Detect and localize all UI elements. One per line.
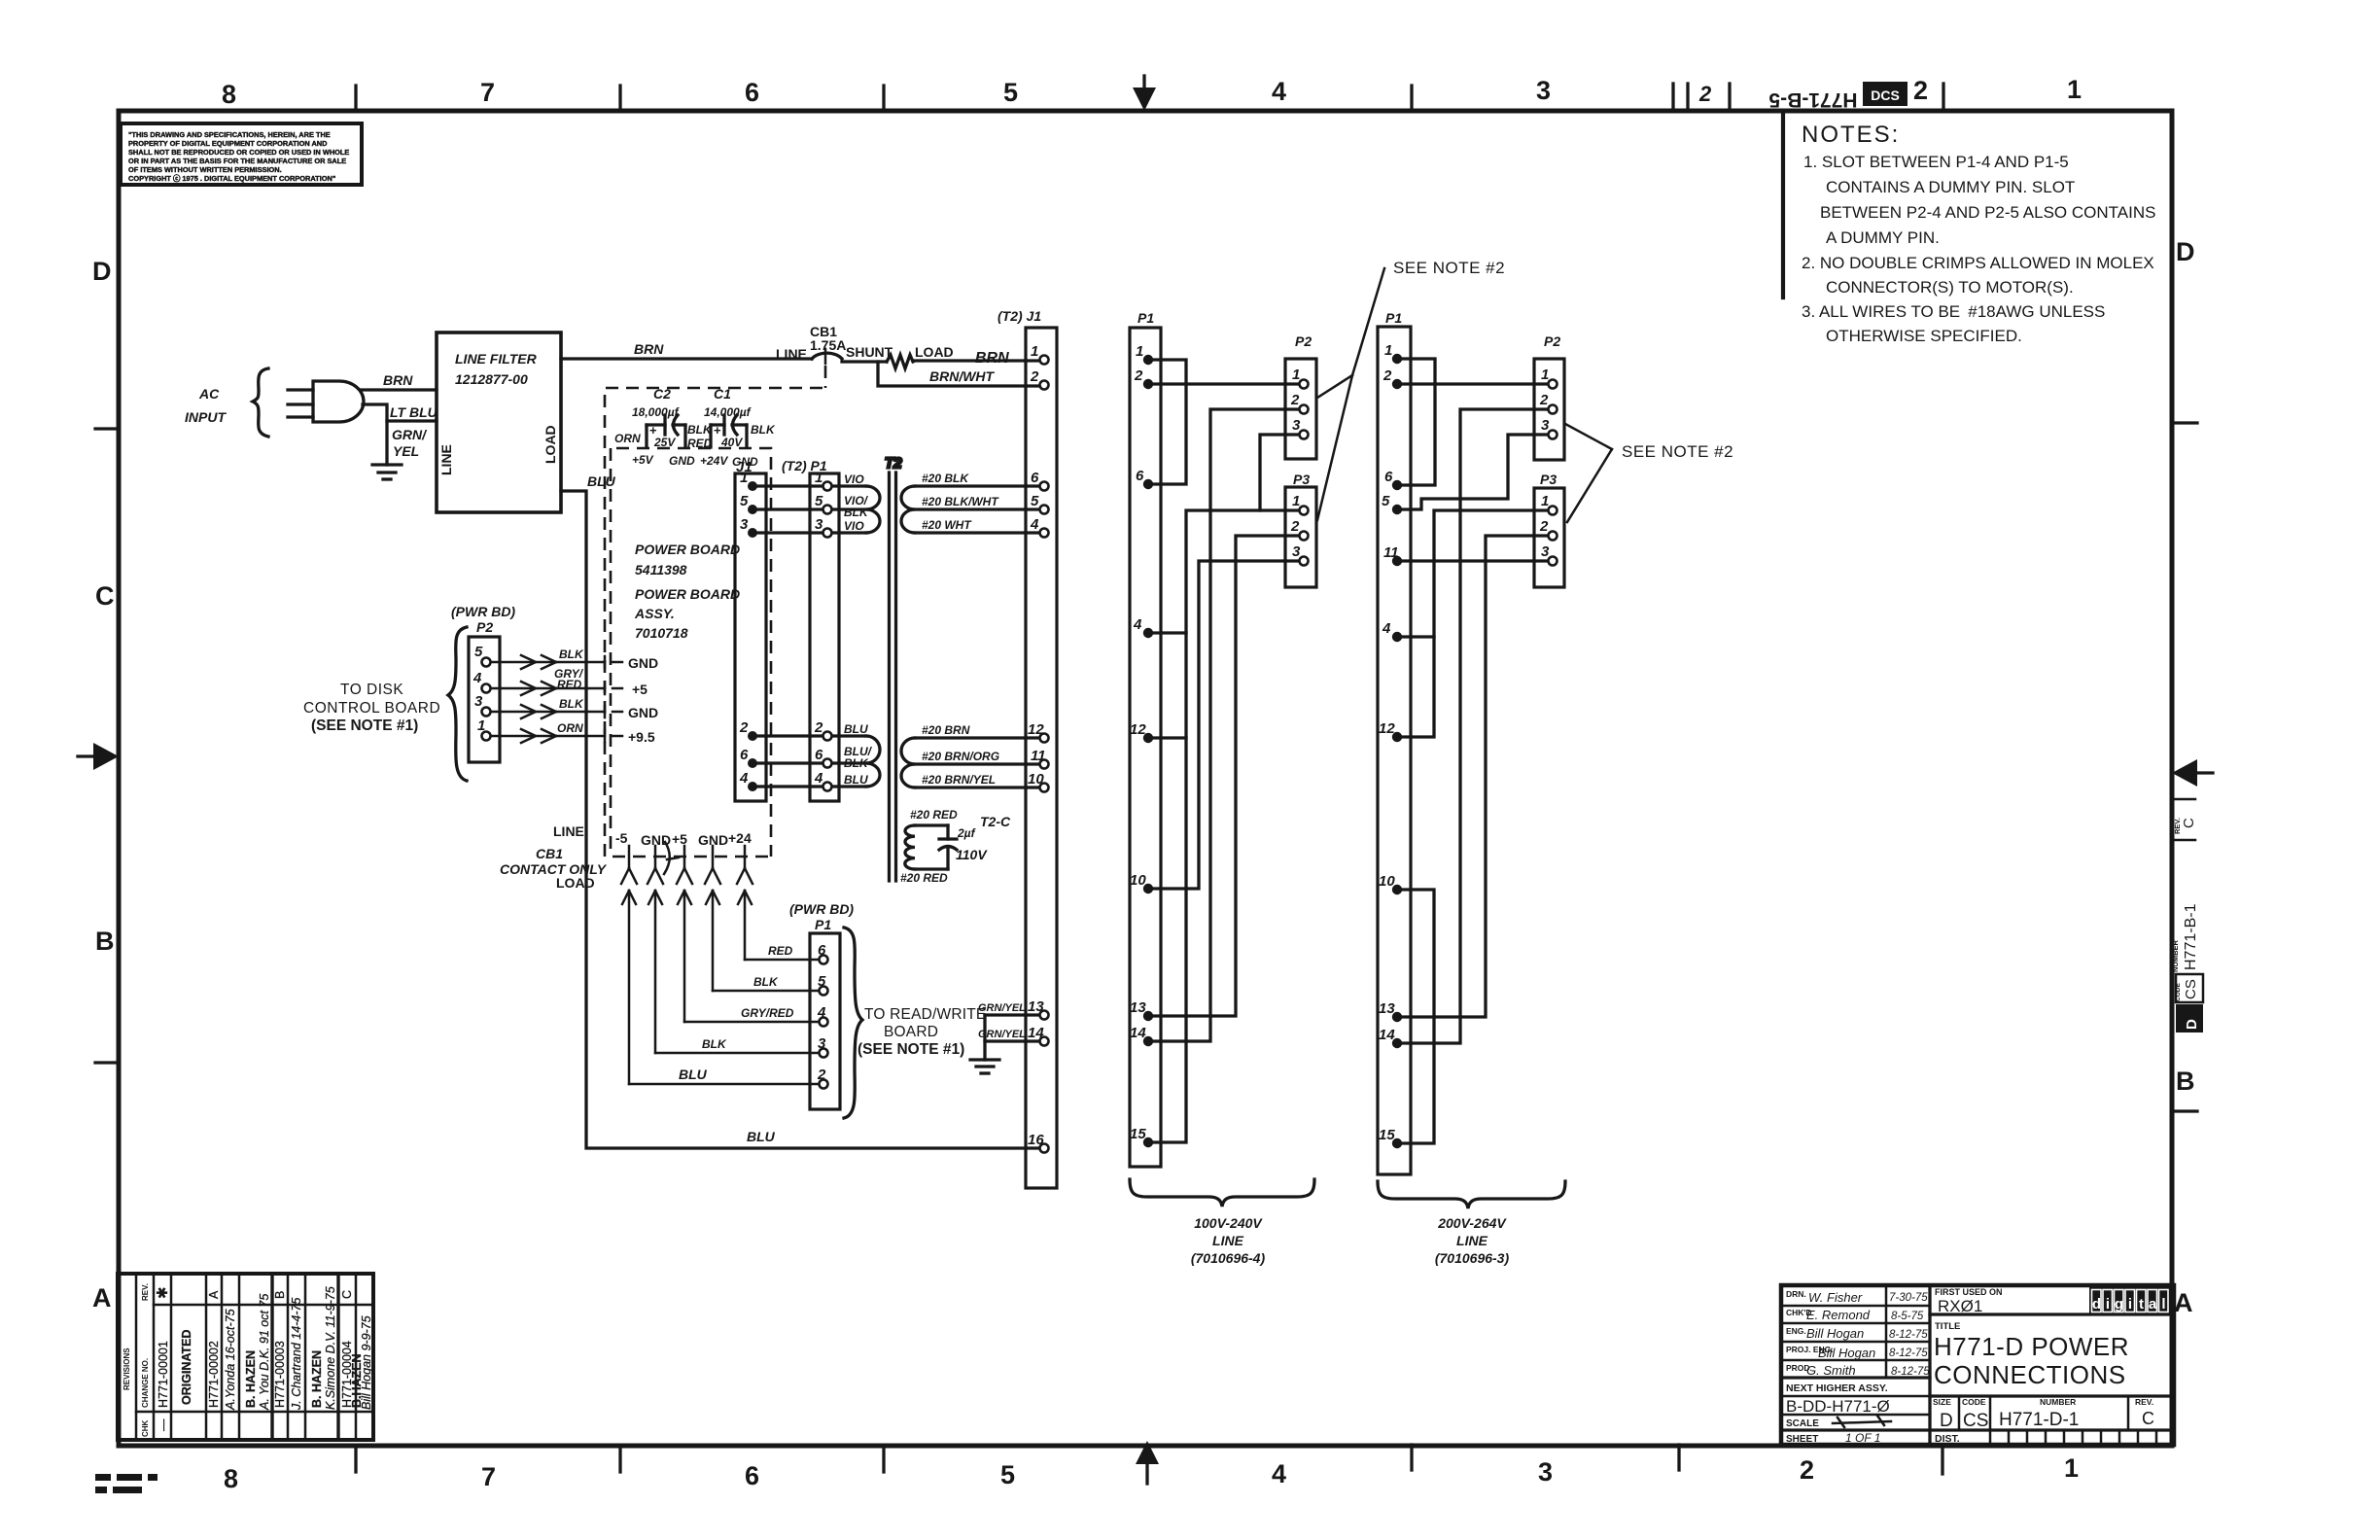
svg-text:BLK: BLK (753, 975, 779, 989)
wire P2-3 GND (491, 697, 658, 720)
svg-text:(PWR BD): (PWR BD) (789, 901, 854, 917)
svg-text:1: 1 (1541, 493, 1549, 509)
svg-text:2: 2 (1290, 518, 1300, 535)
svg-text:4: 4 (1272, 77, 1286, 106)
svg-text:LINE: LINE (1456, 1233, 1488, 1248)
svg-text:B. HAZEN: B. HAZEN (310, 1350, 324, 1408)
motor block 1 connector P3 (1285, 472, 1316, 587)
svg-text:(7010696-3): (7010696-3) (1435, 1250, 1510, 1266)
svg-text:+5: +5 (632, 682, 647, 697)
svg-text:4: 4 (1382, 620, 1391, 637)
transformer T2 primary windings (832, 486, 880, 787)
svg-text:Bill Hogan: Bill Hogan (1818, 1346, 1875, 1360)
svg-text:SIZE: SIZE (1933, 1397, 1951, 1407)
brace for AC input (253, 368, 268, 437)
wire BLU filter down to J1-16 (561, 473, 1039, 1148)
motor block 2 connector P3 (1534, 472, 1564, 587)
svg-text:4: 4 (472, 670, 482, 686)
svg-text:BOARD: BOARD (884, 1024, 938, 1040)
svg-text:RED: RED (557, 678, 582, 691)
svg-text:8: 8 (222, 80, 236, 109)
svg-text:#20 BLK: #20 BLK (922, 472, 969, 485)
svg-text:ORN: ORN (614, 432, 641, 445)
rail labels under capacitors (632, 453, 758, 469)
svg-text:5: 5 (1031, 493, 1039, 509)
wire RED to P1-6 (745, 944, 819, 960)
copyright block (121, 123, 362, 185)
svg-text:2: 2 (1290, 392, 1300, 408)
svg-text:2: 2 (1698, 82, 1712, 106)
T2 secondary winding middle (901, 738, 915, 787)
T2-C tertiary winding (900, 808, 1011, 885)
svg-text:+: + (714, 423, 721, 437)
svg-text:LOAD: LOAD (542, 425, 558, 464)
svg-text:CB1: CB1 (536, 846, 563, 861)
power board inner dashed outline (611, 448, 771, 857)
wire BLU to P1-2 (629, 1067, 819, 1084)
svg-text:2: 2 (1800, 1455, 1814, 1485)
wire #20 BRN to J1-12 (915, 723, 1039, 738)
svg-text:8-12-75: 8-12-75 (1889, 1329, 1928, 1341)
svg-text:1: 1 (1031, 343, 1038, 360)
wires J1 to P1 (T2) (757, 486, 822, 787)
AC INPUT label (185, 386, 227, 425)
svg-text:CONTAINS A DUMMY PIN. SLOT: CONTAINS A DUMMY PIN. SLOT (1826, 178, 2075, 196)
svg-text:BLU: BLU (844, 773, 868, 787)
svg-text:5: 5 (474, 644, 483, 660)
wire labels VIO group (844, 472, 873, 787)
svg-text:A.Yonda 16-oct-75: A.Yonda 16-oct-75 (224, 1309, 237, 1411)
T2 secondary winding upper (901, 486, 915, 533)
svg-text:1212877-00: 1212877-00 (455, 371, 528, 387)
svg-text:LOAD: LOAD (556, 875, 595, 891)
wire P2-4 +5 (491, 667, 647, 697)
svg-text:6: 6 (1136, 468, 1144, 484)
svg-text:8-12-75: 8-12-75 (1889, 1347, 1928, 1359)
svg-text:6: 6 (740, 747, 749, 763)
wire LT BLU plug to filter (363, 404, 438, 421)
svg-text:1: 1 (1136, 343, 1143, 360)
svg-text:POWER BOARD: POWER BOARD (635, 542, 740, 557)
brace under block1 (1130, 1179, 1314, 1207)
zone letters right (2174, 237, 2195, 1317)
svg-text:NUMBER: NUMBER (2171, 940, 2180, 972)
svg-text:CODE: CODE (1962, 1397, 1986, 1407)
svg-text:H771-D POWER: H771-D POWER (1934, 1332, 2129, 1361)
svg-text:LINE: LINE (776, 346, 807, 362)
cable label block2 (1435, 1215, 1510, 1266)
svg-text:GND: GND (628, 705, 658, 720)
wire block1 P2-2 to pin14 (1153, 409, 1299, 1041)
wire BRN to J1-1 (913, 350, 1039, 367)
brace right of P1 (844, 927, 862, 1118)
-5 GND +5 GND +24 rail labels (615, 830, 752, 848)
svg-text:2: 2 (817, 1067, 826, 1083)
svg-text:8-5-75: 8-5-75 (1891, 1311, 1924, 1322)
title block signatures (1786, 1289, 1834, 1373)
svg-text:E. Remond: E. Remond (1806, 1308, 1871, 1322)
svg-text:40V: 40V (720, 436, 743, 449)
svg-text:BLK: BLK (844, 506, 869, 519)
wire BLK to P1-5 (713, 975, 819, 991)
wire #20 BRN/YEL to J1-10 (915, 773, 1039, 787)
ground symbol AC (372, 465, 402, 479)
zone tick marks bottom (356, 1445, 1942, 1474)
revisions block (118, 1274, 373, 1440)
CB1 contact only labels (500, 823, 679, 891)
svg-text:14: 14 (1028, 1025, 1044, 1041)
svg-text:7: 7 (481, 1462, 496, 1491)
wire BRN plug to filter (361, 372, 437, 390)
wire #20 BLK/WHT to J1-5 (915, 495, 1039, 509)
svg-text:2: 2 (739, 719, 749, 736)
svg-text:5: 5 (1003, 78, 1018, 107)
svg-text:2µf: 2µf (957, 826, 976, 840)
svg-text:H771-00003: H771-00003 (273, 1341, 287, 1408)
svg-text:2: 2 (1539, 392, 1549, 408)
svg-text:D: D (92, 257, 112, 286)
transformer T2 core (885, 455, 902, 881)
svg-text:4: 4 (817, 1004, 826, 1021)
svg-text:4: 4 (814, 770, 823, 787)
svg-text:#20 WHT: #20 WHT (922, 518, 972, 532)
svg-text:1: 1 (1384, 342, 1392, 359)
svg-text:13: 13 (1379, 1000, 1395, 1017)
svg-text:DCS: DCS (1871, 87, 1900, 103)
svg-text:C: C (340, 1290, 354, 1299)
svg-text:4: 4 (1030, 516, 1039, 533)
svg-text:14: 14 (1379, 1027, 1395, 1043)
right edge microfiche strip (2171, 799, 2203, 1032)
svg-text:5: 5 (1000, 1460, 1015, 1489)
svg-text:SEE NOTE #2: SEE NOTE #2 (1393, 259, 1505, 277)
svg-text:TO DISK: TO DISK (340, 682, 403, 698)
svg-text:i: i (2128, 1296, 2132, 1312)
wire block2 pin5 to P2-3 (1402, 435, 1548, 509)
zone numbers bottom (224, 1453, 2079, 1493)
svg-text:13: 13 (1130, 999, 1146, 1016)
svg-text:8-12-75: 8-12-75 (1891, 1366, 1930, 1378)
svg-text:CONNECTOR(S) TO MOTOR(S).: CONNECTOR(S) TO MOTOR(S). (1826, 278, 2074, 297)
wire GRN/YEL to ground (387, 421, 428, 465)
svg-text:+24V: +24V (700, 454, 728, 468)
microfiche header reversed text top right (1768, 82, 1907, 111)
svg-text:H771-D-1: H771-D-1 (1999, 1410, 2079, 1430)
digital logo (2089, 1287, 2170, 1314)
svg-text:CONTROL BOARD: CONTROL BOARD (303, 700, 440, 717)
svg-text:D: D (1940, 1411, 1953, 1431)
svg-text:1 OF 1: 1 OF 1 (1845, 1431, 1880, 1445)
wire P2-5 GND (491, 647, 658, 671)
svg-text:T2: T2 (885, 455, 902, 472)
svg-text:LINE: LINE (1212, 1233, 1244, 1248)
zone letters left (92, 257, 115, 1312)
svg-text:DIST.: DIST. (1935, 1433, 1960, 1445)
svg-text:CODE: CODE (2175, 983, 2182, 1001)
wire block1 node P3-1/4/12/15 (1153, 510, 1299, 1142)
svg-text:3: 3 (1541, 417, 1550, 434)
connector J1 power board (735, 459, 766, 801)
svg-text:H771-00002: H771-00002 (207, 1341, 221, 1408)
svg-text:3: 3 (1536, 76, 1551, 105)
svg-text:GND: GND (669, 454, 695, 468)
svg-text:10: 10 (1130, 872, 1146, 889)
top center fold arrow (1133, 76, 1156, 111)
svg-text:200V-264V: 200V-264V (1437, 1215, 1507, 1231)
svg-text:D: D (2176, 237, 2195, 266)
motor block 1 connector P2 (1285, 333, 1316, 459)
svg-text:2: 2 (1030, 368, 1039, 385)
wire block1 P2-3 stub (1260, 435, 1299, 510)
svg-text:ORN: ORN (557, 721, 583, 735)
svg-text:C: C (2181, 818, 2197, 828)
svg-text:#20 BRN/ORG: #20 BRN/ORG (922, 750, 999, 763)
svg-text:3. ALL WIRES TO BE #18AWG UNL: 3. ALL WIRES TO BE #18AWG UNLESS (1802, 302, 2105, 321)
to disk control board label (303, 682, 440, 734)
motor block 2 connector P1 (1378, 310, 1411, 1174)
motor block 2 connector P2 (1534, 333, 1564, 460)
to read/write board label (857, 1006, 986, 1058)
svg-text:11: 11 (1031, 748, 1046, 764)
svg-text:SCALE: SCALE (1786, 1418, 1819, 1429)
wire BRN/WHT to J1-2 (878, 362, 1039, 386)
svg-text:P2: P2 (1295, 333, 1312, 349)
connector J1 main (T2) (997, 308, 1057, 1188)
svg-text:NEXT HIGHER ASSY.: NEXT HIGHER ASSY. (1786, 1382, 1888, 1394)
power board name labels (634, 542, 740, 641)
svg-text:P1: P1 (815, 917, 831, 932)
svg-text:SHUNT: SHUNT (846, 344, 893, 360)
svg-text:BLK: BLK (559, 697, 584, 711)
svg-text:25V: 25V (653, 436, 676, 449)
svg-text:A: A (207, 1290, 221, 1299)
wire GRN/YEL J1-14 (978, 1029, 1039, 1041)
zone ticks sides (95, 423, 2197, 1111)
svg-text:15: 15 (1379, 1127, 1395, 1143)
svg-text:3: 3 (818, 1035, 826, 1052)
svg-text:W. Fisher: W. Fisher (1808, 1290, 1863, 1305)
svg-text:ORIGINATED: ORIGINATED (180, 1329, 193, 1405)
svg-text:#20 RED: #20 RED (900, 871, 948, 885)
svg-text:5: 5 (818, 973, 826, 990)
svg-text:B: B (95, 927, 115, 956)
svg-text:6: 6 (1384, 469, 1393, 485)
capacitor 2uf on T2-C (939, 825, 988, 869)
cable label block1 (1191, 1215, 1266, 1266)
svg-text:P1: P1 (1137, 310, 1154, 326)
svg-text:10: 10 (1379, 873, 1395, 890)
wire block1 P3-3 to pin10 (1153, 561, 1299, 889)
zone tick marks top (356, 84, 1943, 111)
svg-text:1: 1 (477, 717, 485, 734)
svg-text:#20 BRN: #20 BRN (922, 723, 970, 737)
svg-text:H771-B-5: H771-B-5 (1768, 88, 1857, 111)
wire GRY/RED to P1-4 (684, 1006, 819, 1022)
svg-text:12: 12 (1028, 721, 1044, 738)
svg-text:ENG.: ENG. (1786, 1326, 1806, 1336)
svg-text:B: B (273, 1291, 287, 1299)
svg-text:1.75A: 1.75A (810, 337, 846, 353)
dist row (1935, 1430, 2156, 1445)
svg-text:7: 7 (480, 78, 495, 107)
first used on box (1935, 1287, 2003, 1315)
connector P1 pwr bd read/write (789, 901, 854, 1109)
svg-text:LINE: LINE (553, 823, 584, 839)
svg-text:NOTES:: NOTES: (1802, 122, 1900, 148)
svg-text:i: i (2106, 1296, 2110, 1312)
svg-text:CS: CS (2183, 979, 2199, 999)
svg-text:4: 4 (1133, 616, 1142, 633)
svg-text:NUMBER: NUMBER (2040, 1397, 2076, 1407)
svg-text:BLU: BLU (844, 722, 868, 736)
svg-text:10: 10 (1028, 771, 1044, 787)
svg-text:l: l (2161, 1296, 2165, 1312)
svg-text:6: 6 (818, 942, 826, 959)
svg-text:BRN/WHT: BRN/WHT (929, 368, 996, 384)
bottom center fold arrow (1136, 1441, 1159, 1484)
wire block1 pin2 to P2-1 (1153, 382, 1299, 385)
wire block2 pins 1-6 jumper (1402, 359, 1435, 485)
svg-text:RED: RED (687, 437, 713, 450)
svg-text:REV.: REV. (141, 1283, 150, 1301)
svg-text:2: 2 (1913, 76, 1928, 105)
svg-text:1: 1 (740, 470, 748, 486)
svg-text:LT BLU: LT BLU (390, 404, 438, 420)
svg-text:BRN: BRN (975, 350, 1009, 367)
size code number rev row (1933, 1396, 2154, 1431)
svg-text:SHEET: SHEET (1786, 1434, 1818, 1445)
svg-text:BRN: BRN (383, 372, 413, 388)
svg-text:3: 3 (1292, 543, 1301, 560)
see note callout block2 (1565, 424, 1733, 522)
svg-text:SHALL NOT BE REPRODUCED OR COP: SHALL NOT BE REPRODUCED OR COPIED OR USE… (128, 148, 349, 157)
title block (1781, 1285, 2174, 1445)
svg-text:A. You D.K. 91 oct 75: A. You D.K. 91 oct 75 (258, 1294, 271, 1411)
svg-text:COPYRIGHT ⓒ 1975 . DIGITAL EQU: COPYRIGHT ⓒ 1975 . DIGITAL EQUIPMENT COR… (128, 174, 336, 183)
svg-text:C2: C2 (653, 386, 671, 402)
bottom-left microfiche marks (95, 1474, 157, 1493)
svg-text:SEE NOTE #2: SEE NOTE #2 (1622, 442, 1733, 461)
ground symbol read/write (970, 1015, 999, 1073)
svg-text:K.Simone D.V. 11-9-75: K.Simone D.V. 11-9-75 (324, 1286, 337, 1410)
svg-text:REV.: REV. (2135, 1397, 2153, 1407)
capacitor C2 (614, 386, 713, 450)
wire block2 pin2 to P2-1 (1402, 382, 1548, 385)
svg-text:POWER BOARD: POWER BOARD (635, 586, 740, 602)
svg-text:3: 3 (815, 516, 823, 533)
svg-text:RXØ1: RXØ1 (1938, 1297, 1982, 1315)
svg-text:1: 1 (1292, 367, 1300, 383)
svg-text:3: 3 (474, 693, 483, 710)
svg-text:3: 3 (1292, 417, 1301, 434)
svg-text:TO READ/WRITE: TO READ/WRITE (864, 1006, 986, 1023)
svg-text:A DUMMY PIN.: A DUMMY PIN. (1826, 228, 1940, 247)
wire #20 BLK to J1-6 (915, 472, 1039, 486)
svg-text:3: 3 (1541, 543, 1550, 560)
svg-text:DRN.: DRN. (1786, 1289, 1806, 1299)
wire block2 pin11 to P3-3 (1402, 559, 1548, 562)
svg-text:1: 1 (2064, 1453, 2079, 1483)
svg-text:P3: P3 (1293, 472, 1310, 487)
line filter box (437, 332, 561, 512)
svg-text:(SEE NOTE #1): (SEE NOTE #1) (857, 1041, 964, 1058)
svg-text:YEL: YEL (393, 443, 419, 459)
svg-text:GRN/: GRN/ (392, 427, 428, 442)
svg-text:2: 2 (1382, 367, 1392, 384)
svg-text:BRN: BRN (634, 341, 664, 357)
wire GRN/YEL J1-13 (978, 1002, 1039, 1015)
wire BLK to P1-3 (655, 1037, 819, 1053)
brace under block2 (1378, 1181, 1565, 1208)
svg-text:A: A (92, 1283, 112, 1312)
svg-text:GRY/RED: GRY/RED (741, 1006, 794, 1020)
svg-text:2: 2 (1134, 367, 1143, 384)
AC plug (288, 381, 364, 422)
svg-text:BLU: BLU (747, 1129, 776, 1144)
wire block2 node P3-1/4/12 (1402, 510, 1548, 737)
svg-text:P2: P2 (476, 619, 493, 635)
right fold arrow (2172, 759, 2213, 787)
svg-text:C: C (2142, 1409, 2154, 1428)
svg-text:"THIS DRAWING AND SPECIFICATIO: "THIS DRAWING AND SPECIFICATIONS, HEREIN… (128, 130, 331, 139)
svg-text:16: 16 (1028, 1132, 1044, 1148)
svg-text:-5: -5 (615, 830, 628, 846)
svg-text:1. SLOT BETWEEN P1-4 AND P1-5: 1. SLOT BETWEEN P1-4 AND P1-5 (1803, 153, 2069, 171)
svg-text:14,000µf: 14,000µf (704, 405, 752, 419)
svg-text:1: 1 (1541, 367, 1549, 383)
svg-text:3: 3 (740, 516, 749, 533)
svg-text:#20 BRN/YEL: #20 BRN/YEL (922, 773, 996, 787)
svg-text:1: 1 (815, 470, 822, 486)
svg-text:(PWR BD): (PWR BD) (451, 604, 515, 619)
svg-text:OTHERWISE SPECIFIED.: OTHERWISE SPECIFIED. (1826, 327, 2022, 345)
svg-text:FIRST USED ON: FIRST USED ON (1935, 1287, 2003, 1297)
svg-text:7-30-75: 7-30-75 (1889, 1292, 1928, 1304)
wire block2 pins 10-15 jumper (1402, 890, 1434, 1143)
svg-text:(7010696-4): (7010696-4) (1191, 1250, 1266, 1266)
title text (1934, 1321, 2129, 1389)
left fold arrow (78, 743, 119, 770)
svg-text:INPUT: INPUT (185, 409, 227, 425)
rail GND arrow pair (647, 846, 663, 1053)
svg-text:T2-C: T2-C (980, 814, 1011, 829)
svg-text:J. Chartrand 14-4-75: J. Chartrand 14-4-75 (290, 1298, 303, 1411)
svg-text:H771-00001: H771-00001 (157, 1341, 170, 1408)
svg-text:6: 6 (745, 78, 759, 107)
wire CB1 to shunt (842, 344, 893, 362)
svg-text:LOAD: LOAD (915, 344, 954, 360)
notes box left edge (1781, 111, 1785, 297)
svg-text:t: t (2139, 1296, 2144, 1312)
svg-text:C1: C1 (714, 386, 731, 402)
svg-text:VIO: VIO (844, 519, 864, 533)
svg-text:6: 6 (745, 1461, 759, 1490)
svg-text:CS: CS (1963, 1411, 1988, 1431)
svg-text:G. Smith: G. Smith (1806, 1363, 1856, 1378)
svg-text:A: A (2174, 1288, 2193, 1317)
svg-text:14: 14 (1130, 1025, 1146, 1041)
svg-text:5411398: 5411398 (635, 562, 687, 577)
svg-text:+5: +5 (672, 831, 687, 847)
svg-text:12: 12 (1379, 720, 1395, 737)
zone numbers top (222, 75, 2082, 109)
next higher assy (1786, 1382, 1891, 1445)
svg-text:B-DD-H771-Ø: B-DD-H771-Ø (1786, 1397, 1890, 1416)
svg-text:VIO: VIO (844, 472, 864, 486)
svg-text:OF ITEMS WITHOUT WRITTEN PERMI: OF ITEMS WITHOUT WRITTEN PERMISSION. (128, 165, 282, 174)
svg-text:Bill Hogan: Bill Hogan (1806, 1326, 1864, 1341)
svg-text:B. HAZEN: B. HAZEN (244, 1350, 258, 1408)
